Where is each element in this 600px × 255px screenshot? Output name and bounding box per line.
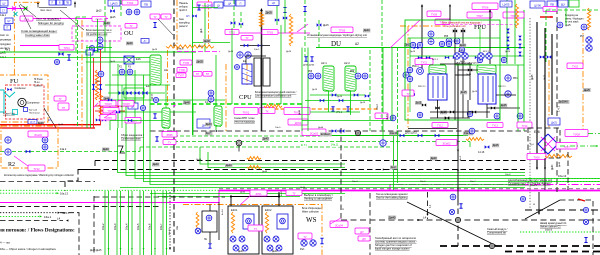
label sp e <box>203 72 212 77</box>
instrument E2t <box>235 65 240 70</box>
label WS b <box>355 228 369 234</box>
valve WS <box>320 238 323 244</box>
svg-text:ТУ: ТУ <box>130 25 133 28</box>
valve cpu b2 <box>258 44 263 47</box>
pipe riser 5b <box>154 191 156 255</box>
instrument FPU j <box>407 67 412 72</box>
valve OU2 <box>126 91 131 95</box>
pump E2C2 c <box>267 245 273 251</box>
boundary orange x247 <box>246 64 248 86</box>
svg-text:Дн40: Дн40 <box>196 159 202 161</box>
svg-text:Рw1: Рw1 <box>300 249 305 251</box>
leader ou a <box>60 10 84 30</box>
valve CPU3 <box>283 16 287 19</box>
pipe green dotted y216 <box>0 215 40 217</box>
pipe green dash y17 <box>76 16 88 18</box>
valve G1 <box>400 134 405 138</box>
pipe green y100d <box>305 100 370 102</box>
unit name CPU <box>239 94 252 101</box>
tag du rot <box>386 114 389 120</box>
valve DU4 <box>310 57 313 62</box>
tag rot x427 <box>429 204 432 208</box>
tag 16a.5 <box>530 183 537 187</box>
svg-text:ТУ07: ТУ07 <box>563 145 570 149</box>
pump unit valve <box>208 244 211 249</box>
svg-text:14а.5: 14а.5 <box>275 127 281 129</box>
filter E16 x1 <box>124 56 134 64</box>
svg-text:Блок маслоочистки и: Блок маслоочистки и <box>86 28 112 32</box>
valve N1 <box>110 9 115 12</box>
pipe dashed y181 <box>0 181 95 183</box>
note valves cabinet <box>540 221 567 229</box>
svg-text:Дн25: Дн25 <box>501 104 507 107</box>
svg-text:Дн25/40: Дн25/40 <box>559 101 569 104</box>
tag E2 <box>243 59 247 63</box>
pot E2C2 <box>277 214 288 229</box>
svg-text:Дн25: Дн25 <box>95 81 101 83</box>
pipe thick dashed y251 <box>505 251 600 253</box>
FU tag <box>28 120 37 125</box>
pipe green x110 <box>109 40 111 130</box>
pipe red y111 <box>95 110 125 112</box>
instrument E3a <box>237 52 243 58</box>
label TY04tl <box>59 45 74 51</box>
svg-text:Дн15: Дн15 <box>110 17 116 19</box>
valve VC2 <box>92 85 95 90</box>
valve DU6 <box>332 93 337 96</box>
dn label ou2 <box>126 42 133 46</box>
pipe green x166g <box>165 85 167 108</box>
svg-text:4а.14: 4а.14 <box>222 209 224 215</box>
tag rot x174 <box>176 225 179 230</box>
tag 16a.9 <box>545 228 552 232</box>
heater pump unit <box>196 212 199 228</box>
svg-text:ТУ13: ТУ13 <box>492 124 498 127</box>
pipe green x241 <box>240 12 242 30</box>
valve FPU2 <box>506 37 510 42</box>
svg-text:16а.13: 16а.13 <box>558 174 567 178</box>
svg-text:ТУ: ТУ <box>406 93 410 96</box>
unit name R2 <box>8 162 15 168</box>
exchanger E2 tube1 <box>254 58 261 86</box>
svg-text:ДУ05 ДУ06: ДУ05 ДУ06 <box>303 65 315 67</box>
dn tag s24 <box>275 127 281 129</box>
hose bus2 <box>247 166 261 169</box>
tag 14.2 <box>60 148 67 151</box>
tag A2 <box>355 42 359 46</box>
boundary orange x226 <box>225 64 227 132</box>
svg-text:4а.7: 4а.7 <box>206 132 211 135</box>
pipe pump down <box>209 232 211 243</box>
label WS a <box>330 221 348 228</box>
valve R2 <box>26 150 31 154</box>
FU cyan duct <box>0 90 4 112</box>
note cpu <box>255 91 297 97</box>
note OU rus <box>86 28 112 32</box>
pipe green x193 low <box>192 104 194 135</box>
tag box r4 <box>569 0 579 7</box>
svg-text:ДУ04: ДУ04 <box>295 121 302 125</box>
exchanger E2 tube2 <box>263 58 270 86</box>
svg-text:Дн40: Дн40 <box>127 42 133 45</box>
pipe green x281c <box>280 25 282 104</box>
svg-text:ДУ15 ДУ15: ДУ15 ДУ15 <box>405 133 418 135</box>
arrow red head <box>551 16 553 18</box>
svg-text:ТУ07: ТУ07 <box>178 74 185 77</box>
pump E2C1 b <box>239 236 245 242</box>
svg-text:ЦА01 ДУ02 ЦА02 ДУ03: ЦА01 ДУ02 ЦА02 ДУ03 <box>455 62 479 65</box>
FU note hi press <box>34 78 44 87</box>
FU thermostat box <box>24 108 28 112</box>
pipe green y75g <box>112 74 160 76</box>
riser tag 16a.6 <box>147 223 151 230</box>
pipe green y112d <box>310 111 360 113</box>
pipe green x397 low <box>397 136 399 183</box>
svg-text:14а.6: 14а.6 <box>177 47 184 51</box>
pump unit tag <box>204 239 208 241</box>
pipe green y93g <box>108 92 165 94</box>
label ou c3 <box>103 108 119 114</box>
pipe gray y169 <box>78 169 525 171</box>
pipe riser 3a <box>128 191 130 255</box>
dn label du edge <box>363 29 370 33</box>
tag box r1 <box>530 1 545 8</box>
tag r c <box>580 36 585 38</box>
svg-text:WS: WS <box>306 216 317 224</box>
dn tag s5 <box>312 89 318 91</box>
svg-text:Дн15: Дн15 <box>228 51 234 53</box>
dn tag r1 <box>460 61 466 63</box>
instrument R d <box>454 38 460 44</box>
pipe black x421 <box>421 5 423 70</box>
pipe green x135 <box>134 70 136 128</box>
svg-text:ТУ04: ТУ04 <box>127 1 134 5</box>
svg-text:Дн40: Дн40 <box>559 161 561 167</box>
tag 14a.1 left <box>0 14 7 17</box>
pipe green y141 <box>168 141 470 143</box>
svg-text:ЗСа02: ЗСа02 <box>310 131 319 135</box>
instrument WS b <box>310 240 316 246</box>
dn tag sp <box>200 28 203 33</box>
svg-text:Дн40: Дн40 <box>431 157 437 160</box>
valve FPU1 <box>506 29 510 34</box>
tag e2c dn2 <box>272 251 278 253</box>
svg-text:ТУ09: ТУ09 <box>431 12 438 16</box>
riser tag 16a.2 <box>101 223 105 230</box>
heater H1 <box>95 70 98 100</box>
riser tag 16a.5 <box>136 223 140 230</box>
arrow riser 6 <box>166 248 168 250</box>
arrow y131 a <box>215 130 217 132</box>
boundary x174 <box>173 0 175 255</box>
tag box top c4 <box>236 0 245 6</box>
svg-text:ДН: ДН <box>362 238 366 241</box>
svg-text:системы хранения жидкого азота: системы хранения жидкого азота / <box>375 240 417 244</box>
pipe green x524 <box>523 10 525 131</box>
unit E2C2 <box>262 206 293 254</box>
pipe green fpu x410 <box>409 38 411 112</box>
valve CPU2b <box>275 18 279 21</box>
reactor R1 body <box>428 74 447 100</box>
leader ou c1 <box>93 103 98 108</box>
valve SP1 <box>197 5 200 10</box>
dn tag s11 <box>483 51 490 53</box>
valve CPU1 <box>231 21 236 25</box>
note nitrogen purge en <box>38 21 64 25</box>
pipe magenta y33 <box>225 32 310 34</box>
valve Rb2 <box>445 116 449 119</box>
FU power unit label <box>3 113 15 116</box>
instrument G4 <box>380 140 386 146</box>
pump unit instr2 <box>195 228 201 234</box>
unit E26 boundary <box>528 128 560 158</box>
svg-text:Газообразный азот из испарител: Газообразный азот из испарителя <box>375 236 416 240</box>
svg-text:ВС1.1: ВС1.1 <box>432 59 439 61</box>
instrument ou g4 <box>140 105 145 110</box>
pipe black x490 <box>489 10 491 64</box>
note cpu2 <box>234 117 255 123</box>
valve bus <box>155 137 158 142</box>
label cpu row2 <box>284 108 310 115</box>
cabinet C1 box <box>560 200 593 255</box>
svg-text:ТУ: ТУ <box>164 16 168 19</box>
svg-text:Control: Control <box>34 84 42 87</box>
pipe green stair5 <box>150 128 182 185</box>
svg-text:Е16: Е16 <box>136 57 141 61</box>
tag E17 <box>146 84 151 88</box>
instrument FPU d <box>486 53 492 59</box>
instrument R f <box>505 75 511 81</box>
pipe green y57 <box>0 57 150 59</box>
hose cpu <box>264 104 282 107</box>
svg-text:С: С <box>341 208 345 210</box>
pipe blk x487 <box>486 104 488 118</box>
svg-text:liquid nitrogen storage system: liquid nitrogen storage system <box>375 247 409 251</box>
svg-text:ТУ05: ТУ05 <box>183 61 190 65</box>
junction magenta X <box>12 7 16 11</box>
instrument R2 b <box>5 149 11 155</box>
pipe green dotted y232 <box>520 231 600 233</box>
svg-text:ЗУ01: ЗУ01 <box>255 192 262 196</box>
svg-text:Дн40: Дн40 <box>184 100 191 104</box>
svg-text:ЦА: ЦА <box>228 3 232 6</box>
FU condenser funnel <box>4 92 15 97</box>
flow tag 4a.17 <box>62 211 70 215</box>
pipe dashed y206 <box>0 205 160 207</box>
label FU r2 <box>58 103 69 110</box>
compressor K1 <box>417 68 424 75</box>
instrument c1 low <box>520 196 525 201</box>
pot inner 2 <box>280 218 286 224</box>
svg-text:DU: DU <box>331 40 341 48</box>
pipe dashed y220 <box>0 220 63 222</box>
instrument R e <box>403 72 409 78</box>
note FPU <box>442 22 482 25</box>
heater E2C1 <box>231 212 234 233</box>
svg-text:Дн15: Дн15 <box>416 103 422 105</box>
vessel A1 <box>150 55 161 85</box>
instrument sp i <box>208 90 214 96</box>
svg-text:АН: АН <box>186 15 190 18</box>
pipe dashed x427 <box>427 192 429 219</box>
dn tag s6 <box>337 96 343 98</box>
svg-text:FU: FU <box>10 78 19 85</box>
dn tag s8 <box>410 51 416 53</box>
svg-text:16а.13: 16а.13 <box>60 191 68 195</box>
valve VC1 <box>99 85 102 90</box>
valve V01 <box>58 52 63 56</box>
valve Rb1 <box>435 106 439 109</box>
tag 4a.1 <box>5 48 11 52</box>
hose vent <box>260 12 264 27</box>
tag 16a.13 <box>558 174 567 178</box>
pipe green x205 <box>204 3 206 52</box>
dn tag s28 <box>240 192 246 194</box>
svg-text:Е26: Е26 <box>534 130 540 134</box>
pipe green dotted A <box>0 192 57 194</box>
pipe dashed x458 low2 <box>457 200 459 246</box>
svg-text:Condenser: Condenser <box>15 87 26 90</box>
tag box cpu <box>268 0 279 6</box>
dn label rd <box>460 91 467 95</box>
leader R2 <box>14 156 28 166</box>
dn tag s15 <box>466 74 472 76</box>
svg-text:ТУ02Н: ТУ02Н <box>104 103 112 106</box>
pipe green dotted B <box>0 189 219 191</box>
pipe magenta y8 <box>0 8 28 10</box>
pipe green x87 <box>86 45 88 128</box>
svg-text:РМ1.1: РМ1.1 <box>412 66 419 68</box>
pipe green x126 <box>125 64 127 128</box>
tag 14.16 <box>478 151 485 154</box>
instrument FPU h <box>446 41 451 46</box>
svg-text:Со схемы лист 11 / See the dia: Со схемы лист 11 / See the diagram <box>508 182 550 186</box>
rot tag r1 <box>169 228 171 235</box>
svg-text:Дн40: Дн40 <box>318 127 324 129</box>
pipe black x568 low <box>567 152 569 190</box>
valve FPU6 <box>518 52 522 57</box>
valve Rb4 <box>491 106 495 109</box>
valve fpu t1 <box>453 29 457 32</box>
tag A1 <box>164 68 168 72</box>
svg-text:Cooling water drain: Cooling water drain <box>25 33 50 37</box>
svg-text:ТП03: ТП03 <box>267 31 274 34</box>
pump OU1 <box>97 37 103 43</box>
instrument bus r <box>469 128 475 134</box>
svg-text:16а.2: 16а.2 <box>377 104 379 110</box>
svg-text:Fine purification unit: Fine purification unit <box>444 25 466 28</box>
svg-text:ТУ08: ТУ08 <box>573 132 580 136</box>
valve fpu t2 <box>461 29 465 32</box>
dn label ou3 <box>103 96 111 100</box>
stem stack 1 <box>37 2 39 8</box>
dn tag s1 <box>198 46 204 48</box>
dn tag s10 <box>458 51 465 53</box>
svg-text:А1: А1 <box>164 68 168 72</box>
pipe dashed y220 <box>341 219 600 221</box>
pipe red discharge2 <box>0 127 95 129</box>
instrument E3b <box>245 52 251 58</box>
valve F1 <box>94 49 99 53</box>
arrow x458 b <box>457 170 459 172</box>
FU dn40 <box>37 122 44 126</box>
svg-text:ТП07: ТП07 <box>476 14 483 18</box>
svg-text:ТУ: ТУ <box>246 37 249 40</box>
instrument c1 b <box>583 219 588 224</box>
svg-text:проб 2: проб 2 <box>179 8 187 12</box>
svg-text:Power Unit: Power Unit <box>3 113 15 116</box>
leader diagonal 2 <box>525 200 560 219</box>
svg-text:Газ на освещение здания /: Газ на освещение здания / <box>376 192 408 196</box>
tag Pb <box>444 36 449 38</box>
pipe blk y128r <box>408 128 457 130</box>
tag box ou <box>141 39 149 44</box>
dn tag s18 <box>196 159 202 161</box>
valve VR1.1 <box>331 107 334 112</box>
rot tag r5 <box>544 74 546 80</box>
tag e2c dn1 <box>238 251 244 253</box>
label TP02 <box>225 30 239 35</box>
dn tag busr <box>492 144 499 148</box>
svg-text:Дн15: Дн15 <box>323 24 329 27</box>
dn tag r2 <box>472 91 478 93</box>
tag rot x537 <box>532 74 534 80</box>
instrument 1B <box>90 46 95 51</box>
FU condenser fan <box>7 88 11 91</box>
pipe riser 6a <box>162 191 164 255</box>
valve FPUi4 <box>453 56 457 59</box>
pipe gray y160 <box>95 160 527 162</box>
note FPU en <box>444 25 466 28</box>
valve G2 <box>418 134 423 138</box>
instrument R a <box>428 31 434 37</box>
valve A1 out <box>153 114 156 119</box>
pipe green y183 r <box>525 181 600 183</box>
FU compressor <box>18 98 26 106</box>
exchanger E2 shell <box>242 64 252 84</box>
pipe magenta collector right <box>219 190 600 192</box>
label sp g <box>161 14 171 19</box>
arrow green y52 <box>3 51 5 53</box>
svg-text:16а.6: 16а.6 <box>420 181 426 183</box>
pump OU2 <box>97 44 103 50</box>
label bus2 <box>163 140 176 145</box>
stem stack 2 <box>74 2 76 8</box>
note риser bottom <box>90 250 102 252</box>
tag L4 y220 <box>423 216 427 220</box>
reactor R1 tube3 <box>442 76 444 98</box>
instrument FPU k <box>407 76 412 81</box>
pipe blk y75r <box>455 74 470 76</box>
svg-text:Панель: Панель <box>179 1 189 5</box>
label R2 top <box>28 131 48 137</box>
pipe blk y108r <box>487 107 520 109</box>
svg-text:Дн40: Дн40 <box>552 164 554 170</box>
svg-text:ТУ: ТУ <box>59 98 62 101</box>
leader sp <box>158 19 173 35</box>
leader magenta cpu <box>297 24 308 32</box>
svg-text:16а.6: 16а.6 <box>147 223 151 230</box>
vessel A3s <box>214 106 222 127</box>
leader diagonal 1 <box>407 202 497 246</box>
svg-text:4а.17: 4а.17 <box>62 211 70 215</box>
label r mid <box>567 63 583 69</box>
pump E2C1 d <box>242 245 248 251</box>
heater H2 <box>99 93 102 121</box>
pipe blk drop1 <box>230 197 232 207</box>
svg-text:Дн15: Дн15 <box>461 91 467 94</box>
tag rot x557 <box>552 164 554 170</box>
